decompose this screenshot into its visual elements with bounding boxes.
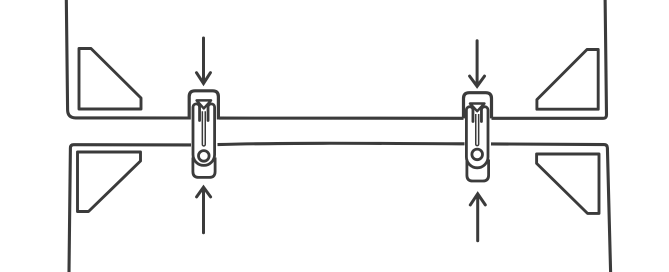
left clip head [189,91,218,120]
corner gusset, top-left [79,49,141,110]
right clip pivot circle [472,149,483,160]
right clip head [464,93,492,119]
press arrow, top-right (pointing down) [470,41,485,87]
top panel outline [66,0,606,118]
corner gusset, top-right [537,50,598,110]
clip fastener, left [189,91,218,178]
right clip central slot [476,114,479,146]
left clip wedge marker [197,100,211,108]
clip fastener, right [464,93,492,181]
right clip body (prongs + rounded bottom) [466,107,488,168]
left clip body (prongs + rounded bottom) [193,104,215,165]
left clip central slot [202,111,205,146]
right clip bottom cap [467,160,489,182]
left clip bottom cap [193,158,215,178]
left clip pivot circle [199,151,210,162]
corner gusset, bottom-right [537,154,599,213]
press arrow, top-left (pointing down) [197,38,211,84]
corner gusset, bottom-left [78,152,141,212]
press arrow, bottom-left (pointing up) [197,187,211,233]
press arrow, bottom-right (pointing up) [470,194,485,241]
right clip wedge marker [470,104,484,112]
bottom panel outline [69,143,611,272]
